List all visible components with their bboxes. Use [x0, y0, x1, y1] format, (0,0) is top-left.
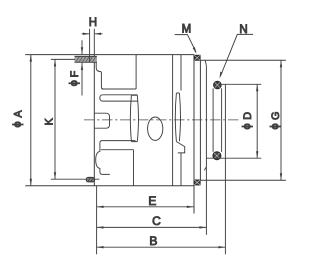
flange hub edge [205, 66, 207, 235]
top-left step [96, 62, 103, 89]
flange bottom chamfer [204, 167, 206, 171]
bottom interior upper line [100, 141, 136, 143]
bottom interior wall [133, 150, 135, 186]
left-center coupling recess [94, 113, 109, 128]
svg-text:ϕ: ϕ [68, 80, 80, 86]
dimension phiG [280, 60, 282, 180]
svg-text:D: D [242, 112, 254, 120]
o-ring N bottom [213, 152, 221, 160]
flange top face + G extension [200, 59, 286, 61]
svg-text:N: N [239, 24, 247, 36]
dimension A [30, 55, 32, 186]
flange right face + B extension [224, 84, 226, 254]
body rear interior line 1 [172, 55, 174, 186]
svg-text:G: G [270, 112, 282, 120]
top pocket right wall [135, 55, 137, 89]
slot upper line [103, 94, 138, 96]
dimension C [97, 226, 207, 228]
label M with leader [175, 35, 197, 54]
slot left rounded end [100, 95, 103, 101]
top pocket bottom [101, 88, 136, 90]
o-ring groove wall left [212, 88, 214, 152]
svg-text:H: H [89, 17, 97, 29]
svg-text:K: K [44, 117, 56, 125]
dimension E [97, 206, 194, 208]
svg-text:B: B [149, 234, 157, 248]
dimension phiD [206, 84, 261, 158]
rear plate face [193, 55, 195, 214]
bottom-left pocket half-circle [96, 143, 110, 175]
flange bottom face + G extension [200, 179, 286, 181]
bottom interior lower line [101, 149, 134, 151]
lower-right slanted detail [176, 142, 185, 153]
svg-text:C: C [152, 214, 161, 228]
svg-text:ϕ: ϕ [241, 123, 253, 129]
flange top chamfer [205, 60, 206, 65]
svg-text:E: E [148, 194, 156, 208]
svg-text:ϕ: ϕ [269, 123, 281, 129]
svg-text:M: M [182, 23, 192, 35]
dimension H [82, 29, 103, 63]
svg-text:ϕ: ϕ [12, 121, 24, 127]
o-ring groove wall right [221, 88, 223, 152]
bottom dowel pin hatched [86, 177, 94, 182]
body rear interior line 2 [180, 55, 182, 186]
o-ring N top [214, 81, 222, 89]
bottom extension line left [96, 186, 98, 254]
dimension B [97, 246, 226, 248]
right gear bore lens [175, 93, 180, 141]
center shaft ellipse [148, 117, 163, 140]
left gear bore lens [130, 95, 138, 141]
svg-text:A: A [13, 110, 25, 118]
seal M top square [194, 55, 200, 60]
dimension phiF [81, 40, 83, 95]
centerline [84, 119, 241, 121]
flange left face [199, 60, 201, 180]
body outline [25, 55, 194, 186]
svg-text:F: F [69, 70, 81, 77]
label N with leader [220, 34, 254, 78]
slot lower line [103, 100, 138, 102]
top dowel pin boss hatched [75, 56, 97, 62]
dimension K [51, 59, 100, 179]
seal M bottom square [194, 180, 200, 185]
